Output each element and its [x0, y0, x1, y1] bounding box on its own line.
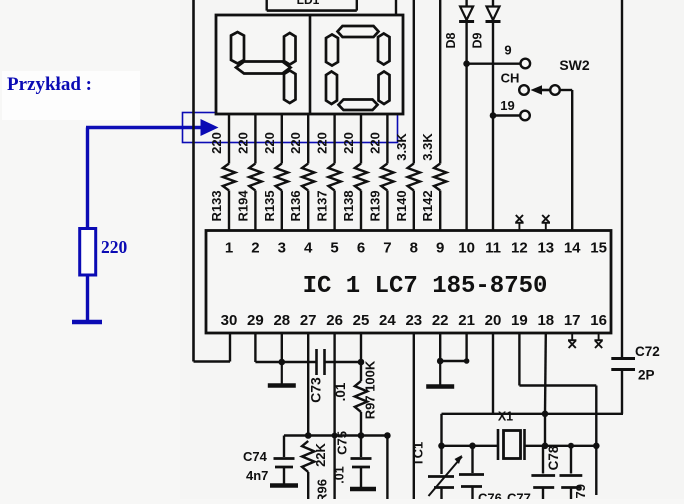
svg-text:C75: C75: [335, 431, 350, 455]
digit 0 segment C: [379, 72, 390, 105]
no-connect mark pin 17: [568, 333, 576, 349]
node pin26 bottom bus: [332, 433, 338, 439]
wire pin 21 down: [465, 333, 467, 361]
white label background panel: [2, 71, 140, 120]
wire pin 27 down: [307, 333, 309, 436]
wire X1 node down: [544, 414, 546, 446]
capacitor C74 4n7: [243, 436, 295, 485]
op-amp IC1 LC7185-8750 box: [206, 231, 611, 334]
wire column pin 1: [228, 114, 230, 164]
node TC1 top: [438, 443, 445, 450]
svg-text:17: 17: [564, 312, 581, 329]
terminal 19 circle: [520, 111, 530, 121]
svg-text:R96: R96: [315, 479, 330, 499]
capacitor C78: [531, 445, 561, 499]
node pin19/X1: [593, 443, 600, 450]
wire ground bus y362 right: [325, 361, 361, 363]
svg-text:C78: C78: [546, 445, 561, 470]
svg-text:18: 18: [537, 312, 554, 329]
svg-text:220: 220: [101, 237, 128, 257]
svg-text:15: 15: [590, 240, 607, 257]
svg-text:R140: R140: [394, 190, 409, 221]
svg-text:220: 220: [235, 132, 250, 154]
wire column pin 8: [413, 0, 415, 164]
svg-text:30: 30: [221, 312, 238, 329]
node pin21 bus corner: [464, 358, 470, 364]
switch SW2 wiper arrow: [531, 85, 551, 95]
svg-text:IC 1 LC7 185-8750: IC 1 LC7 185-8750: [303, 273, 548, 300]
wire pin19 bus right: [519, 384, 596, 386]
wire pin 22 down: [439, 333, 441, 361]
svg-text:21: 21: [458, 312, 475, 329]
resistor R137 220: [315, 132, 341, 221]
svg-text:4n7: 4n7: [246, 468, 268, 483]
wire pin 25 down: [360, 333, 362, 362]
svg-text:2: 2: [251, 240, 259, 257]
node C76 top: [469, 443, 476, 450]
node pin25 junction: [358, 359, 365, 366]
wire X1 row: [442, 445, 499, 447]
svg-text:220: 220: [315, 132, 330, 154]
svg-text:3.3K: 3.3K: [420, 133, 435, 161]
svg-text:R97 100K: R97 100K: [363, 360, 378, 419]
wire TC1 riser: [440, 414, 442, 446]
capacitor C73 plates: [308, 349, 325, 403]
svg-text:4: 4: [304, 240, 313, 257]
ground (pin 28): [281, 362, 283, 386]
resistor R194 220: [235, 132, 261, 221]
wire SW2 common to pin 14: [560, 89, 572, 91]
crystal X1: [498, 410, 525, 461]
7-segment display box: [216, 15, 403, 114]
svg-text:X1: X1: [498, 410, 513, 424]
svg-text:23: 23: [405, 312, 422, 329]
svg-text:R139: R139: [367, 190, 382, 221]
resistor R136 220: [288, 132, 314, 221]
svg-text:28: 28: [273, 312, 290, 329]
terminal CH circle: [519, 85, 529, 95]
capacitor C76: [459, 446, 484, 499]
digit 0 segment B: [378, 34, 390, 65]
wire pin 24 down (cut): [386, 436, 388, 500]
no-connect mark pin 16: [594, 333, 602, 349]
svg-text:C74: C74: [243, 449, 268, 464]
svg-text:25: 25: [353, 312, 370, 329]
svg-text:19: 19: [511, 312, 528, 329]
svg-text:R137: R137: [315, 190, 330, 221]
no-connect mark pin 13: [542, 215, 550, 231]
svg-text:TC1: TC1: [411, 442, 426, 467]
wire column pin 4: [307, 114, 309, 164]
node pin22 ground junction: [437, 358, 444, 365]
digit 4 segment F: [231, 32, 244, 64]
ground (pin 22): [439, 361, 441, 387]
svg-text:19: 19: [500, 98, 514, 113]
svg-text:220: 220: [288, 132, 303, 154]
digit 0 segment A: [338, 26, 379, 37]
diode D9: [471, 7, 501, 49]
display divider: [309, 15, 312, 114]
svg-text:26: 26: [326, 312, 343, 329]
wire pin19 drop: [595, 386, 597, 446]
svg-text:R135: R135: [262, 190, 277, 221]
svg-text:9: 9: [504, 43, 511, 58]
svg-text:D8: D8: [444, 32, 458, 48]
svg-text:10: 10: [458, 240, 475, 257]
capacitor C75 .01: [333, 431, 372, 487]
digit 0 segment D: [339, 100, 378, 111]
wire column pin 3: [281, 114, 283, 164]
wire pin 28 down: [281, 333, 283, 362]
svg-text:R194: R194: [235, 190, 250, 222]
wire column D9: [492, 0, 494, 231]
svg-text:3.3K: 3.3K: [394, 133, 409, 161]
wire pins 22-21 bus: [440, 360, 466, 362]
svg-text:D9: D9: [471, 32, 485, 48]
svg-text:220: 220: [367, 132, 382, 154]
svg-text:C79: C79: [573, 484, 588, 499]
wire pin 18 down: [544, 333, 547, 414]
wire stub top right of display: [395, 0, 397, 15]
svg-text:14: 14: [564, 240, 581, 257]
wire right rail: [621, 0, 623, 358]
node D9 junction: [490, 112, 497, 119]
terminal common circle: [550, 85, 560, 95]
digit 0 segment F: [326, 35, 338, 66]
svg-text:3: 3: [278, 240, 286, 257]
wire pin 23 down (cut): [413, 333, 415, 499]
svg-text:R136: R136: [288, 190, 303, 221]
node D8 junction: [463, 60, 470, 67]
wire to terminal 9: [467, 63, 521, 65]
wire to terminal 19: [493, 114, 520, 116]
svg-text:24: 24: [379, 312, 396, 329]
svg-text:22: 22: [432, 312, 449, 329]
svg-text:R133: R133: [209, 190, 224, 221]
svg-text:220: 220: [262, 132, 277, 154]
svg-text:C77: C77: [507, 491, 531, 500]
wire bus y413.8: [442, 413, 546, 415]
resistor R138 220: [341, 132, 367, 221]
wire pin 26 down: [333, 333, 335, 499]
svg-text:20: 20: [485, 312, 502, 329]
resistor R139 220: [367, 132, 393, 221]
svg-text:CH: CH: [501, 71, 520, 86]
trimmer TC1: [411, 442, 463, 499]
svg-text:29: 29: [247, 312, 264, 329]
wire R96 down (cut): [307, 472, 309, 499]
wire pin25 node to R97: [360, 362, 362, 381]
node cap C77 top: [568, 443, 574, 449]
terminal 9 circle: [521, 59, 531, 69]
wire column pin 7: [386, 114, 388, 164]
svg-text:5: 5: [330, 240, 338, 257]
svg-text:C72: C72: [635, 344, 660, 359]
svg-text:LD1: LD1: [297, 0, 320, 7]
wire column pin 9: [439, 0, 441, 164]
node C75 top: [358, 432, 365, 439]
svg-text:C73: C73: [308, 377, 324, 403]
svg-text:22K: 22K: [313, 442, 328, 466]
diode D8: [444, 7, 474, 49]
svg-text:9: 9: [436, 240, 444, 257]
digit 4 segment G: [236, 62, 291, 74]
ground (blue example): [72, 320, 102, 325]
svg-text:220: 220: [341, 132, 356, 154]
capacitor C72 2P: [611, 344, 659, 414]
digit 4 segment B: [284, 33, 296, 65]
wire bottom bus y435: [284, 434, 387, 436]
svg-text:1: 1: [225, 240, 233, 257]
ground (C74): [270, 483, 298, 487]
svg-text:2P: 2P: [638, 368, 655, 383]
node pin28 ground junction: [279, 359, 286, 366]
svg-text:220: 220: [209, 132, 224, 154]
resistor R142 3.3K: [420, 133, 446, 222]
ground (C75): [350, 487, 376, 491]
node R96 top: [305, 432, 312, 439]
svg-text:C76: C76: [478, 491, 502, 500]
node X1 right: [542, 443, 549, 450]
svg-text:R142: R142: [420, 190, 435, 221]
wire pin 20 down: [492, 333, 494, 414]
resistor R133 220: [209, 132, 235, 221]
wire column pin 2: [254, 114, 256, 164]
resistor R135 220: [262, 132, 288, 221]
wire column pin 5: [333, 114, 335, 164]
highlight box around resistor values row: [183, 113, 398, 143]
svg-text:11: 11: [485, 240, 501, 257]
svg-text:16: 16: [590, 312, 607, 329]
resistor R140 3.3K: [394, 133, 420, 222]
resistor R97 100K: [355, 360, 378, 419]
digit 4 segment C: [284, 71, 296, 104]
svg-text:Przykład :: Przykład :: [7, 74, 92, 95]
svg-text:8: 8: [410, 240, 418, 257]
svg-text:7: 7: [383, 240, 391, 257]
resistor 220 (blue example): [80, 229, 96, 276]
wire pin 19 down: [518, 333, 520, 386]
svg-text:27: 27: [300, 312, 317, 329]
node X1 top junction: [542, 411, 549, 418]
LED display LD1 box (cut off at top): [266, 0, 268, 11]
wire column pin 6: [360, 114, 362, 164]
wire blue horizontal with arrow: [86, 119, 219, 229]
resistor R96 22K: [302, 441, 330, 503]
wire column D8: [465, 0, 467, 231]
wire blue resistor to ground: [86, 275, 89, 321]
wire pin 29 down: [254, 333, 256, 362]
digit 0 segment E: [326, 72, 337, 105]
wire left rail: [192, 0, 195, 362]
wire C72 bus: [545, 413, 623, 415]
wire pin19 node down (cut): [595, 446, 597, 495]
wire R97 to C75 node: [360, 412, 362, 436]
node pin24: [384, 432, 391, 439]
svg-text:6: 6: [357, 240, 365, 257]
svg-text:13: 13: [537, 240, 554, 257]
svg-text:12: 12: [511, 240, 528, 257]
svg-text:.01: .01: [333, 466, 347, 483]
svg-text:R138: R138: [341, 190, 356, 221]
no-connect mark pin 12: [515, 215, 523, 231]
wire ground bus y362 left: [255, 361, 316, 363]
capacitor C77 plates: [560, 446, 583, 499]
svg-text:SW2: SW2: [559, 57, 590, 73]
